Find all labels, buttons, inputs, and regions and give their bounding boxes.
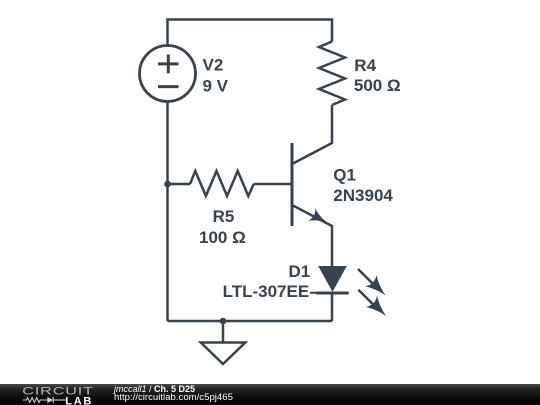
- wire R4 bottom to collector: [292, 105, 332, 164]
- V2 minus sign: [158, 85, 179, 88]
- node dot ground junction: [220, 318, 227, 325]
- footer bar: [0, 384, 540, 405]
- svg-text:LAB: LAB: [65, 395, 93, 405]
- logo schematic line: [23, 397, 66, 403]
- svg-text:Q1: Q1: [333, 166, 356, 185]
- diode D1 cathode bar: [316, 292, 348, 295]
- wire top loop: V2 top to R4 top: [168, 20, 333, 46]
- resistor R4: [319, 42, 345, 106]
- svg-text:100 Ω: 100 Ω: [199, 228, 246, 247]
- V2 plus sign: [158, 62, 179, 65]
- wire left rail: [166, 102, 169, 322]
- diode D1 triangle: [318, 266, 347, 292]
- svg-text:D1: D1: [288, 262, 310, 281]
- node dot base: [164, 181, 171, 188]
- ground stub: [222, 321, 225, 343]
- wire bottom rail: [168, 320, 333, 323]
- LED emission arrow 2 shaft: [358, 290, 373, 305]
- wire base from node to R5: [168, 183, 191, 186]
- transistor Q1 bar: [291, 143, 294, 226]
- svg-text:9 V: 9 V: [203, 76, 229, 95]
- voltage source V2 circle: [140, 46, 196, 102]
- transistor Q1 emitter: [292, 205, 332, 266]
- svg-text:V2: V2: [203, 56, 224, 75]
- D1 label leader: [310, 292, 317, 294]
- logo diode triangle: [47, 397, 53, 403]
- svg-text:LTL-307EE: LTL-307EE: [223, 282, 310, 301]
- resistor R5: [190, 171, 254, 196]
- LED emission arrow 1 shaft: [358, 269, 373, 284]
- wire R5 to base: [254, 183, 292, 186]
- emission arrow 1 head: [365, 275, 385, 295]
- emission arrow 2 head: [366, 296, 386, 316]
- credit text: [113, 383, 115, 385]
- svg-text:R4: R4: [354, 56, 376, 75]
- svg-text:R5: R5: [213, 207, 235, 226]
- wire LED to bottom rail: [331, 293, 334, 321]
- svg-text:500 Ω: 500 Ω: [354, 76, 401, 95]
- emitter arrowhead: [309, 208, 327, 222]
- ground triangle: [201, 343, 246, 365]
- svg-text:2N3904: 2N3904: [333, 186, 393, 205]
